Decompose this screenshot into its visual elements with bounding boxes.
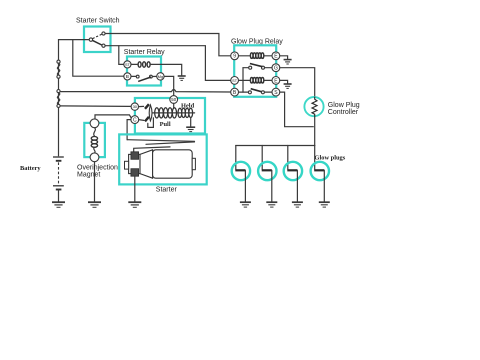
wire Mg to terminal 50: [164, 76, 174, 95]
wire starter to ground: [134, 176, 136, 202]
glow plug 3: [284, 146, 302, 202]
starter brush (top): [131, 152, 139, 160]
ground (glow plug 1): [240, 202, 251, 207]
terminal ST (starter relay): [124, 61, 131, 68]
wire controller to glow plug bus: [314, 116, 316, 145]
starter switch dashed throw: [93, 34, 102, 38]
solenoid plunger: [149, 105, 152, 121]
terminal Mg (starter relay): [157, 73, 164, 80]
ground (glow plug 2): [266, 202, 277, 207]
terminal C: [131, 116, 139, 124]
terminal 50: [170, 96, 178, 104]
glow relay switch 2 contacts: [248, 91, 251, 94]
terminal 9 (glow relay): [231, 52, 239, 60]
solenoid fixed contact (bottom flag): [145, 117, 149, 122]
svg-text:Pull: Pull: [160, 121, 171, 128]
terminal B (starter relay): [124, 73, 131, 80]
overinjection magnet coil: [91, 128, 97, 153]
wire bus to battery: [58, 108, 60, 156]
glow plug 1: [232, 146, 250, 202]
svg-text:30: 30: [133, 104, 138, 109]
glow relay row3 coil wires: [239, 79, 251, 81]
wire branch to starter relay ST: [119, 46, 124, 65]
wire S to controller bottom junction: [280, 92, 314, 127]
fusible link FL2: [57, 90, 60, 108]
wire bus to solenoid 30: [60, 105, 131, 108]
starter motor body: [125, 150, 196, 178]
wire lower contact to glow relay ST: [105, 46, 231, 81]
starter switch box: [84, 27, 111, 53]
glow plug bus: [236, 145, 315, 147]
wire C to solenoid contact: [139, 119, 144, 122]
wire bus to glow relay B (with hop over Mg-50 wire): [60, 90, 231, 93]
glow relay row2 switch wires: [243, 67, 249, 69]
svg-text:Mg: Mg: [158, 74, 164, 79]
ground (E upper): [284, 60, 292, 64]
wire 30 to solenoid contact: [139, 105, 144, 107]
svg-text:Overinjection: Overinjection: [77, 164, 118, 171]
glow plug controller R1: [304, 97, 323, 117]
ground (hold coil): [186, 127, 195, 131]
glow relay coil 1: [250, 53, 263, 59]
svg-text:Controller: Controller: [328, 109, 359, 116]
svg-text:Starter: Starter: [156, 187, 178, 194]
overinjection magnet lower terminal: [90, 153, 99, 162]
svg-text:Battery: Battery: [20, 165, 41, 172]
svg-text:Glow plugs: Glow plugs: [315, 154, 346, 161]
svg-text:C: C: [133, 118, 137, 124]
terminal G (glow relay): [272, 64, 280, 72]
starter relay box: [127, 57, 161, 86]
starter relay left contact: [136, 75, 139, 78]
pull-in coil: [155, 108, 177, 118]
svg-text:Glow Plug: Glow Plug: [328, 102, 360, 109]
svg-text:Held: Held: [181, 102, 195, 109]
starter switch blade (solid): [93, 40, 102, 45]
hold-in coil: [178, 108, 193, 117]
terminal S (glow relay): [272, 88, 280, 96]
starter solenoid box: [135, 98, 205, 134]
svg-text:Magnet: Magnet: [77, 172, 100, 179]
ground (E lower): [284, 84, 292, 88]
starter field winding lines: [127, 140, 194, 152]
starter switch upper contact: [102, 32, 105, 35]
ground (starter): [128, 202, 141, 207]
starter switch lower contact: [102, 44, 105, 47]
wire C to starter motor: [127, 120, 131, 140]
wire hold coil to ground: [190, 118, 192, 127]
ground (glow plug 3): [292, 202, 303, 207]
glow relay ST link node: [242, 68, 244, 92]
starter relay right contact: [150, 75, 153, 78]
svg-text:B: B: [126, 74, 129, 80]
terminal E upper (glow relay): [272, 52, 280, 60]
wire E upper to ground: [280, 56, 288, 59]
ground (starter relay coil): [178, 76, 186, 80]
wire magnet to ground: [94, 162, 96, 202]
wire C node to magnet: [95, 115, 131, 119]
wire battery bus to switch common: [59, 40, 90, 61]
wire bus segment: [58, 78, 60, 89]
starter switch common contact: [89, 38, 92, 41]
wire starter relay coil to ground: [150, 64, 182, 75]
terminal ST (glow relay): [231, 77, 239, 85]
svg-text:ST: ST: [125, 63, 131, 67]
starter relay blade: [138, 77, 151, 81]
starter relay contact wires: [131, 75, 136, 77]
starter relay coil: [131, 62, 150, 67]
node junction to starter relay B: [73, 40, 124, 77]
glow relay row1 coil wires: [239, 55, 251, 57]
glow plug 4: [311, 146, 329, 202]
svg-text:ST: ST: [232, 79, 238, 83]
overinjection magnet box: [84, 123, 105, 157]
battery BT1: [53, 157, 64, 190]
wire battery to ground: [58, 190, 60, 202]
glow relay switch 1 contacts: [249, 66, 252, 69]
solenoid core axis: [153, 112, 195, 114]
svg-text:Starter Switch: Starter Switch: [76, 18, 120, 25]
wire E lower to ground: [280, 80, 288, 83]
ground (glow plug 4): [319, 202, 330, 207]
glow plug 2: [258, 146, 276, 202]
overinjection magnet upper terminal: [90, 119, 99, 128]
svg-text:G: G: [274, 66, 278, 72]
terminal E lower (glow relay): [272, 77, 280, 85]
svg-text:9: 9: [233, 54, 236, 60]
glow plug relay box: [234, 45, 276, 97]
terminal 30: [131, 103, 138, 110]
svg-text:50: 50: [171, 97, 176, 102]
glow relay switch 2 blade: [251, 89, 262, 92]
starter brush (bottom): [131, 169, 139, 177]
wire pull coil to C node: [148, 118, 154, 128]
ground (overinjection magnet): [88, 202, 101, 207]
wire upper contact to glow relay terminal 9: [105, 34, 231, 56]
wire 50 to coil junction: [173, 103, 175, 108]
svg-text:Starter Relay: Starter Relay: [124, 49, 165, 56]
wire G to glow plug controller: [280, 68, 315, 97]
ground (battery): [52, 202, 65, 207]
fusible link FL1: [57, 60, 60, 78]
solenoid fixed contact (top flag): [145, 104, 149, 109]
glow relay coil 2: [250, 77, 263, 83]
starter motor box: [119, 134, 207, 184]
terminal B (glow relay): [231, 88, 239, 96]
glow relay row4 switch wires: [239, 91, 249, 93]
glow relay switch 1 blade: [250, 64, 263, 67]
